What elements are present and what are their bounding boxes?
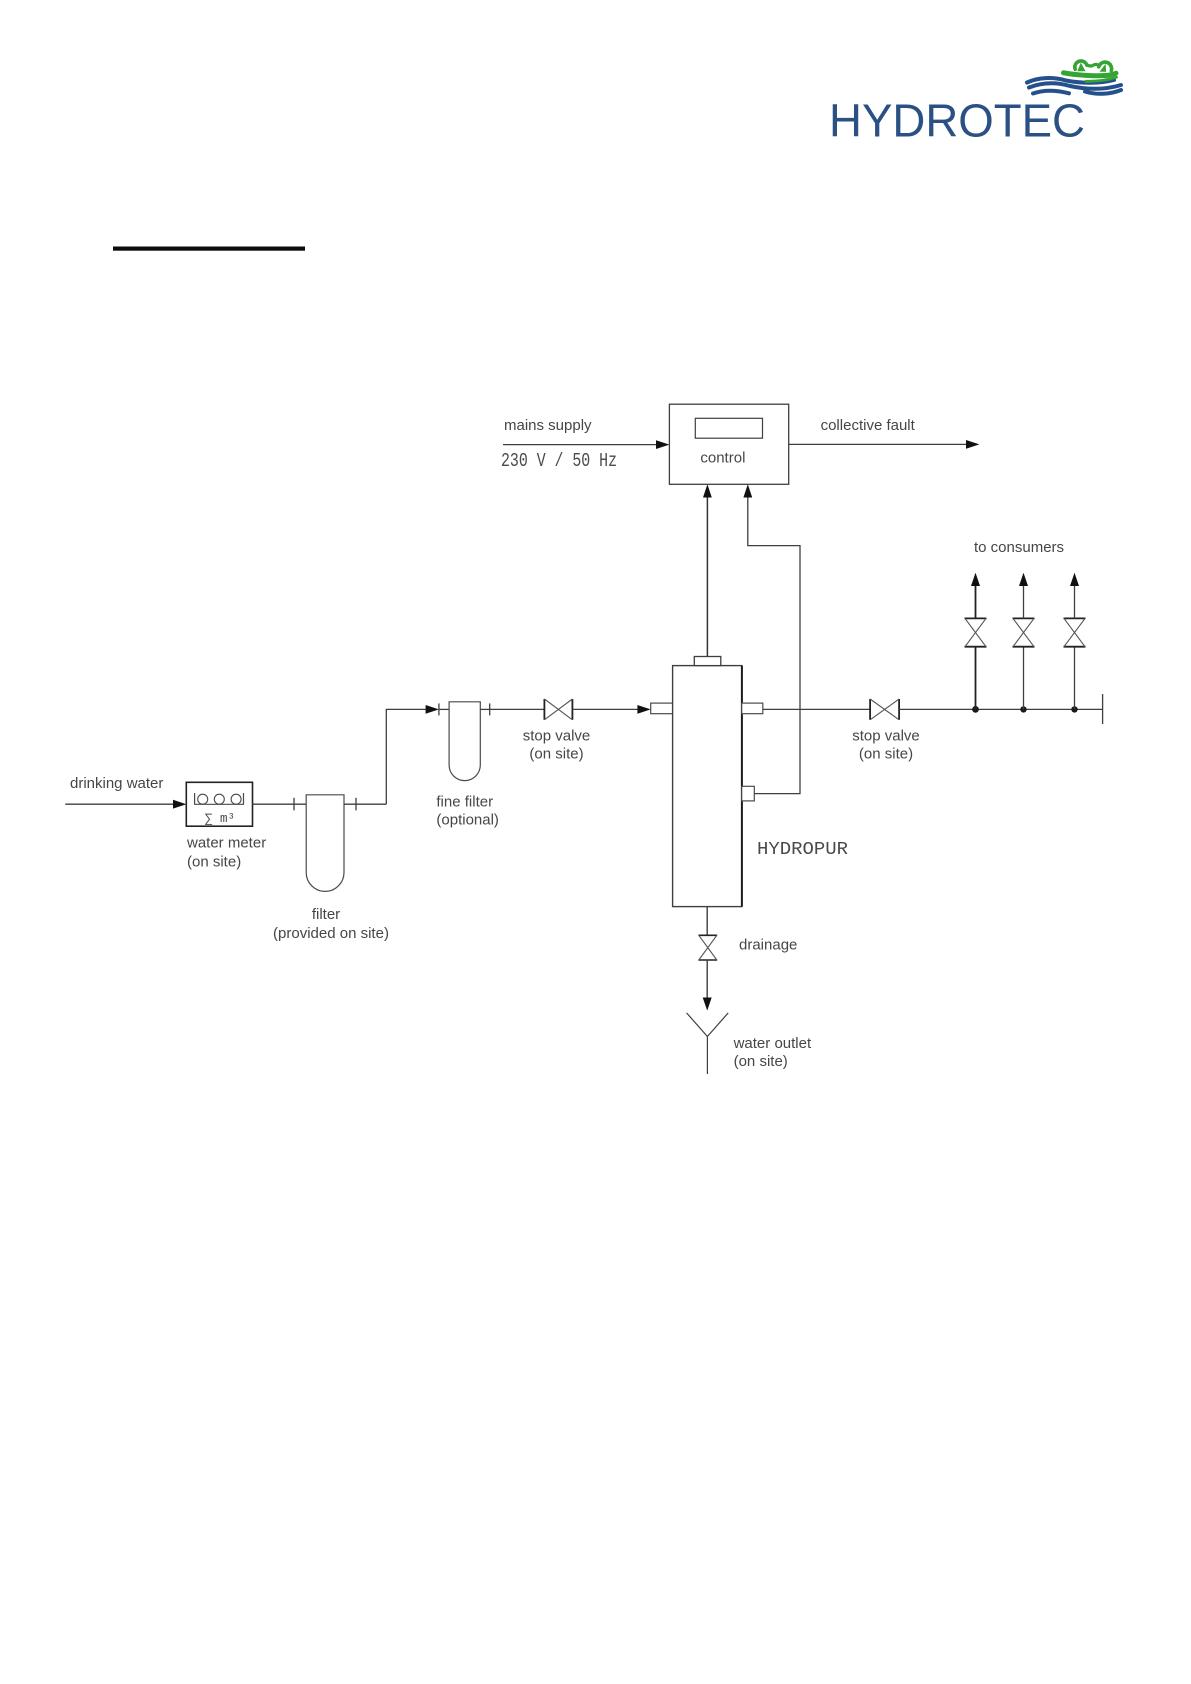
arrowhead into fine filter	[426, 705, 439, 714]
filter vessel	[306, 795, 344, 892]
arrowhead consumer 1	[971, 573, 980, 586]
wire vessel sensor to control (signal 2)	[748, 497, 800, 794]
control display window	[695, 418, 762, 438]
logo frog head green stroke	[1064, 73, 1117, 76]
svg-text:to consumers: to consumers	[974, 539, 1064, 556]
svg-text:(on site): (on site)	[859, 745, 913, 762]
svg-text:HYDROTEC: HYDROTEC	[829, 95, 1085, 147]
logo frog chin green stroke	[1086, 77, 1117, 81]
svg-text:(provided on site): (provided on site)	[273, 925, 389, 942]
consumer branch 2 junction	[1020, 706, 1026, 712]
wire drinking water inlet	[65, 803, 174, 805]
arrowhead into vessel	[637, 705, 650, 714]
arrowhead signal 2 into control	[743, 484, 752, 497]
logo wave 3 (bottom blue right)	[1085, 90, 1121, 94]
stop valve V1 diagonals	[544, 699, 572, 720]
wire riser up	[386, 709, 427, 804]
stop valve V1 right bar	[571, 699, 573, 720]
tick before fine filter	[438, 703, 440, 715]
arrowhead into water meter	[173, 800, 186, 809]
svg-text:stop valve: stop valve	[523, 728, 591, 745]
wire mains supply	[503, 444, 657, 446]
consumer valve 1 diagonals	[965, 618, 986, 646]
consumer valve 1 bottom bar	[965, 646, 987, 648]
wire vessel top to control (signal 1)	[706, 497, 708, 657]
wire vessel bottom to drainage valve	[706, 907, 708, 936]
distribution end tick	[1102, 694, 1104, 724]
arrowhead consumer 2	[1019, 573, 1028, 586]
logo wave 2 (middle blue)	[1029, 83, 1121, 88]
consumer valve 3 diagonals	[1064, 618, 1085, 646]
heading underline	[113, 247, 305, 251]
wire to stop valve 1	[490, 708, 545, 710]
arrowhead collective fault	[966, 440, 979, 449]
control box U1	[669, 404, 788, 484]
svg-text:(on site): (on site)	[187, 854, 241, 871]
water meter box	[186, 782, 252, 826]
svg-text:(optional): (optional)	[436, 812, 499, 829]
vessel sensor port (lower right)	[742, 786, 755, 801]
fine filter vessel	[449, 702, 480, 781]
svg-text:(on site): (on site)	[529, 745, 583, 762]
arrowhead consumer 3	[1070, 573, 1079, 586]
wire fine filter to tick	[480, 708, 489, 710]
consumer branch 3 junction	[1071, 706, 1077, 712]
consumer valve 3 top bar	[1064, 617, 1086, 619]
wire collective fault	[789, 443, 968, 445]
consumer valve 2 top bar	[1013, 617, 1035, 619]
consumer branch 2 wire upper	[1023, 586, 1025, 619]
water meter dial 1	[198, 794, 208, 804]
tick after filter	[355, 798, 357, 811]
consumer branch 1 wire upper	[975, 586, 977, 619]
stop valve V1 left bar	[543, 699, 545, 720]
water meter dial 3	[231, 794, 241, 804]
svg-text:filter: filter	[312, 906, 340, 923]
svg-text:water meter: water meter	[186, 835, 266, 852]
wire filter to riser	[344, 803, 386, 805]
vessel right edge bold	[741, 666, 743, 907]
tick after fine filter	[489, 703, 491, 715]
wire tick to fine filter	[439, 708, 449, 710]
arrowhead into control	[656, 440, 669, 449]
svg-text:HYDROPUR: HYDROPUR	[757, 840, 848, 860]
svg-text:drainage: drainage	[739, 936, 797, 953]
stop valve V2 diagonals	[870, 699, 899, 720]
consumer branch 1 wire lower	[975, 647, 977, 710]
drainage valve top bar	[698, 934, 717, 936]
wire meter to filter	[253, 803, 307, 805]
logo frog right pupil	[1100, 64, 1107, 72]
vessel inlet port	[651, 703, 673, 714]
arrowhead into water outlet	[703, 998, 712, 1011]
consumer branch 3 wire lower	[1074, 647, 1076, 710]
consumer valve 2 diagonals	[1013, 618, 1034, 646]
logo frog left eye	[1075, 61, 1087, 69]
consumer valve 1 top bar	[965, 617, 987, 619]
logo frog brow bridge	[1087, 64, 1099, 66]
water meter dial 2	[214, 794, 224, 804]
svg-text:mains supply: mains supply	[504, 417, 592, 434]
logo frog right eye	[1099, 62, 1112, 70]
svg-text:stop valve: stop valve	[852, 728, 920, 745]
svg-text:fine filter: fine filter	[436, 794, 493, 811]
wire outlet to stop valve 2	[763, 708, 870, 710]
svg-text:230 V / 50 Hz: 230 V / 50 Hz	[501, 450, 617, 472]
logo wave 1 (top blue)	[1027, 78, 1114, 83]
svg-text:∑ m³: ∑ m³	[205, 812, 235, 826]
logo frog left pupil	[1077, 63, 1085, 72]
wire stop valve to vessel	[572, 708, 639, 710]
HYDROPUR vessel	[673, 666, 742, 907]
stop valve V2 left bar	[869, 699, 871, 720]
vessel outlet port (upper right)	[742, 703, 763, 714]
svg-text:drinking water: drinking water	[70, 775, 163, 792]
tick before filter	[293, 798, 295, 811]
drainage valve diagonals	[699, 935, 717, 960]
consumer branch 1 junction	[972, 706, 979, 713]
consumer branch 3 wire upper	[1074, 586, 1076, 619]
logo wave 3 (bottom blue left)	[1033, 91, 1069, 94]
wire drainage valve down	[706, 960, 708, 998]
water meter counter frame	[195, 793, 244, 804]
drainage valve bottom bar	[698, 959, 717, 961]
arrowhead signal 1 into control	[703, 484, 712, 497]
consumer valve 3 bottom bar	[1064, 646, 1086, 648]
consumer valve 2 bottom bar	[1013, 646, 1035, 648]
svg-text:control: control	[700, 450, 745, 467]
svg-text:water outlet: water outlet	[733, 1035, 812, 1052]
consumer branch 2 wire lower	[1023, 647, 1025, 710]
svg-text:collective fault: collective fault	[821, 417, 916, 434]
water outlet funnel	[687, 1013, 729, 1074]
vessel top cap	[694, 657, 721, 666]
wire distribution main	[899, 708, 1103, 710]
stop valve V2 right bar	[898, 699, 900, 720]
svg-text:(on site): (on site)	[734, 1053, 788, 1070]
